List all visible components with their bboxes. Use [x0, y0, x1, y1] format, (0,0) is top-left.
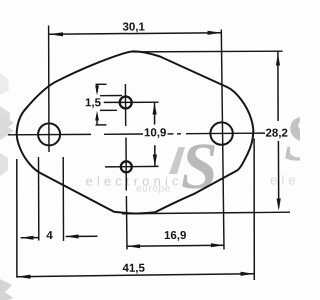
- label 10,9: [145, 128, 166, 138]
- pin axis vertical lower: [125, 196, 128, 250]
- label 28,2: [266, 129, 288, 139]
- pin hole top: [120, 97, 132, 109]
- watermark word electronic: [86, 176, 178, 186]
- watermark bottom-left blob: [0, 279, 13, 300]
- watermark big letter S: [182, 144, 215, 188]
- dimension 1.5 upper arrow elbow: [96, 83, 107, 85]
- watermark word europe: [136, 186, 169, 193]
- arrowhead 41.5 right: [241, 272, 255, 276]
- dimension 41.5 right extension: [253, 139, 255, 281]
- pin axis vertical mid: [125, 138, 127, 191]
- flange outline: [17, 51, 254, 213]
- watermark word electronic right-edge tile: [271, 175, 296, 185]
- dimension 1.5 pin-top line: [100, 95, 122, 97]
- dimension 1.5 upper arrow stem: [96, 84, 98, 92]
- dimension 1.5 lower arrow elbow: [96, 124, 107, 126]
- dimension 10.9 line upper: [154, 103, 156, 125]
- centerline horizontal right segment: [186, 132, 265, 135]
- centerline horizontal dash a: [168, 133, 174, 135]
- arrowhead 4 right: [66, 234, 79, 238]
- left hole axis vertical: [48, 26, 50, 153]
- arrowhead 4 left: [21, 236, 34, 240]
- dimension 10.9 line lower: [154, 145, 156, 166]
- label 16,9: [165, 231, 186, 241]
- dimension 28.2 line upper: [277, 52, 279, 121]
- label 4: [46, 231, 52, 239]
- arrowhead 30.1 left: [49, 32, 63, 36]
- arrowhead 10.9 up: [153, 102, 157, 114]
- watermark big letter S right-edge tile: [285, 116, 318, 160]
- arrowhead 28.2 bottom: [277, 199, 281, 211]
- watermark left-edge wedge c: [0, 153, 8, 176]
- dimension 4 line right piece: [66, 235, 98, 237]
- arrowhead 10.9 down: [153, 155, 157, 167]
- label 30,1: [123, 22, 145, 32]
- dimension 28.2 top extension: [133, 50, 283, 53]
- pin hole bottom: [121, 161, 132, 172]
- dimension 28.2 line lower: [277, 141, 279, 208]
- centerline horizontal left segment: [8, 133, 91, 135]
- pin axis vertical upper: [124, 84, 126, 126]
- dimension 30.1 line: [49, 33, 222, 34]
- dimension 10.9 top extension: [132, 101, 159, 103]
- dimension 4 extension left: [38, 157, 40, 241]
- dimension 10.9 bottom extension: [105, 165, 159, 168]
- dimension 4 line left piece: [21, 237, 39, 239]
- watermark big letter t: [169, 147, 185, 174]
- label 41,5: [123, 264, 145, 274]
- arrowhead 16.9 right: [211, 243, 224, 247]
- arrowhead 41.5 left: [17, 275, 31, 279]
- dimension 1.5 pin-center line: [104, 101, 132, 103]
- dimension 1.5 pin-bottom line: [100, 109, 117, 111]
- watermark left-edge wedge b: [0, 114, 14, 140]
- arrowhead 30.1 right: [208, 31, 222, 35]
- dimension 16.9 line: [127, 245, 224, 246]
- centerline horizontal dash b: [177, 133, 181, 135]
- arrowhead 1.5 up: [95, 111, 99, 121]
- centerline horizontal mid segment: [104, 133, 143, 135]
- right hole axis vertical: [221, 30, 224, 250]
- label 1,5: [86, 98, 101, 108]
- arrowhead 28.2 top: [276, 54, 280, 66]
- dimension 41.5 line: [17, 274, 254, 277]
- arrowhead 1.5 down: [95, 86, 99, 96]
- arrowhead 16.9 left: [127, 244, 140, 248]
- dimension 1.5 lower arrow stem: [96, 115, 98, 125]
- dimension 4 extension right: [62, 157, 64, 241]
- dimension 28.2 bottom extension: [122, 212, 290, 214]
- watermark left-edge fragment upper: [0, 73, 9, 95]
- watermark left-edge wedge: [0, 106, 10, 126]
- dimension 41.5 left extension: [16, 159, 18, 278]
- mounting hole left: [38, 123, 60, 145]
- mounting hole right: [210, 122, 232, 144]
